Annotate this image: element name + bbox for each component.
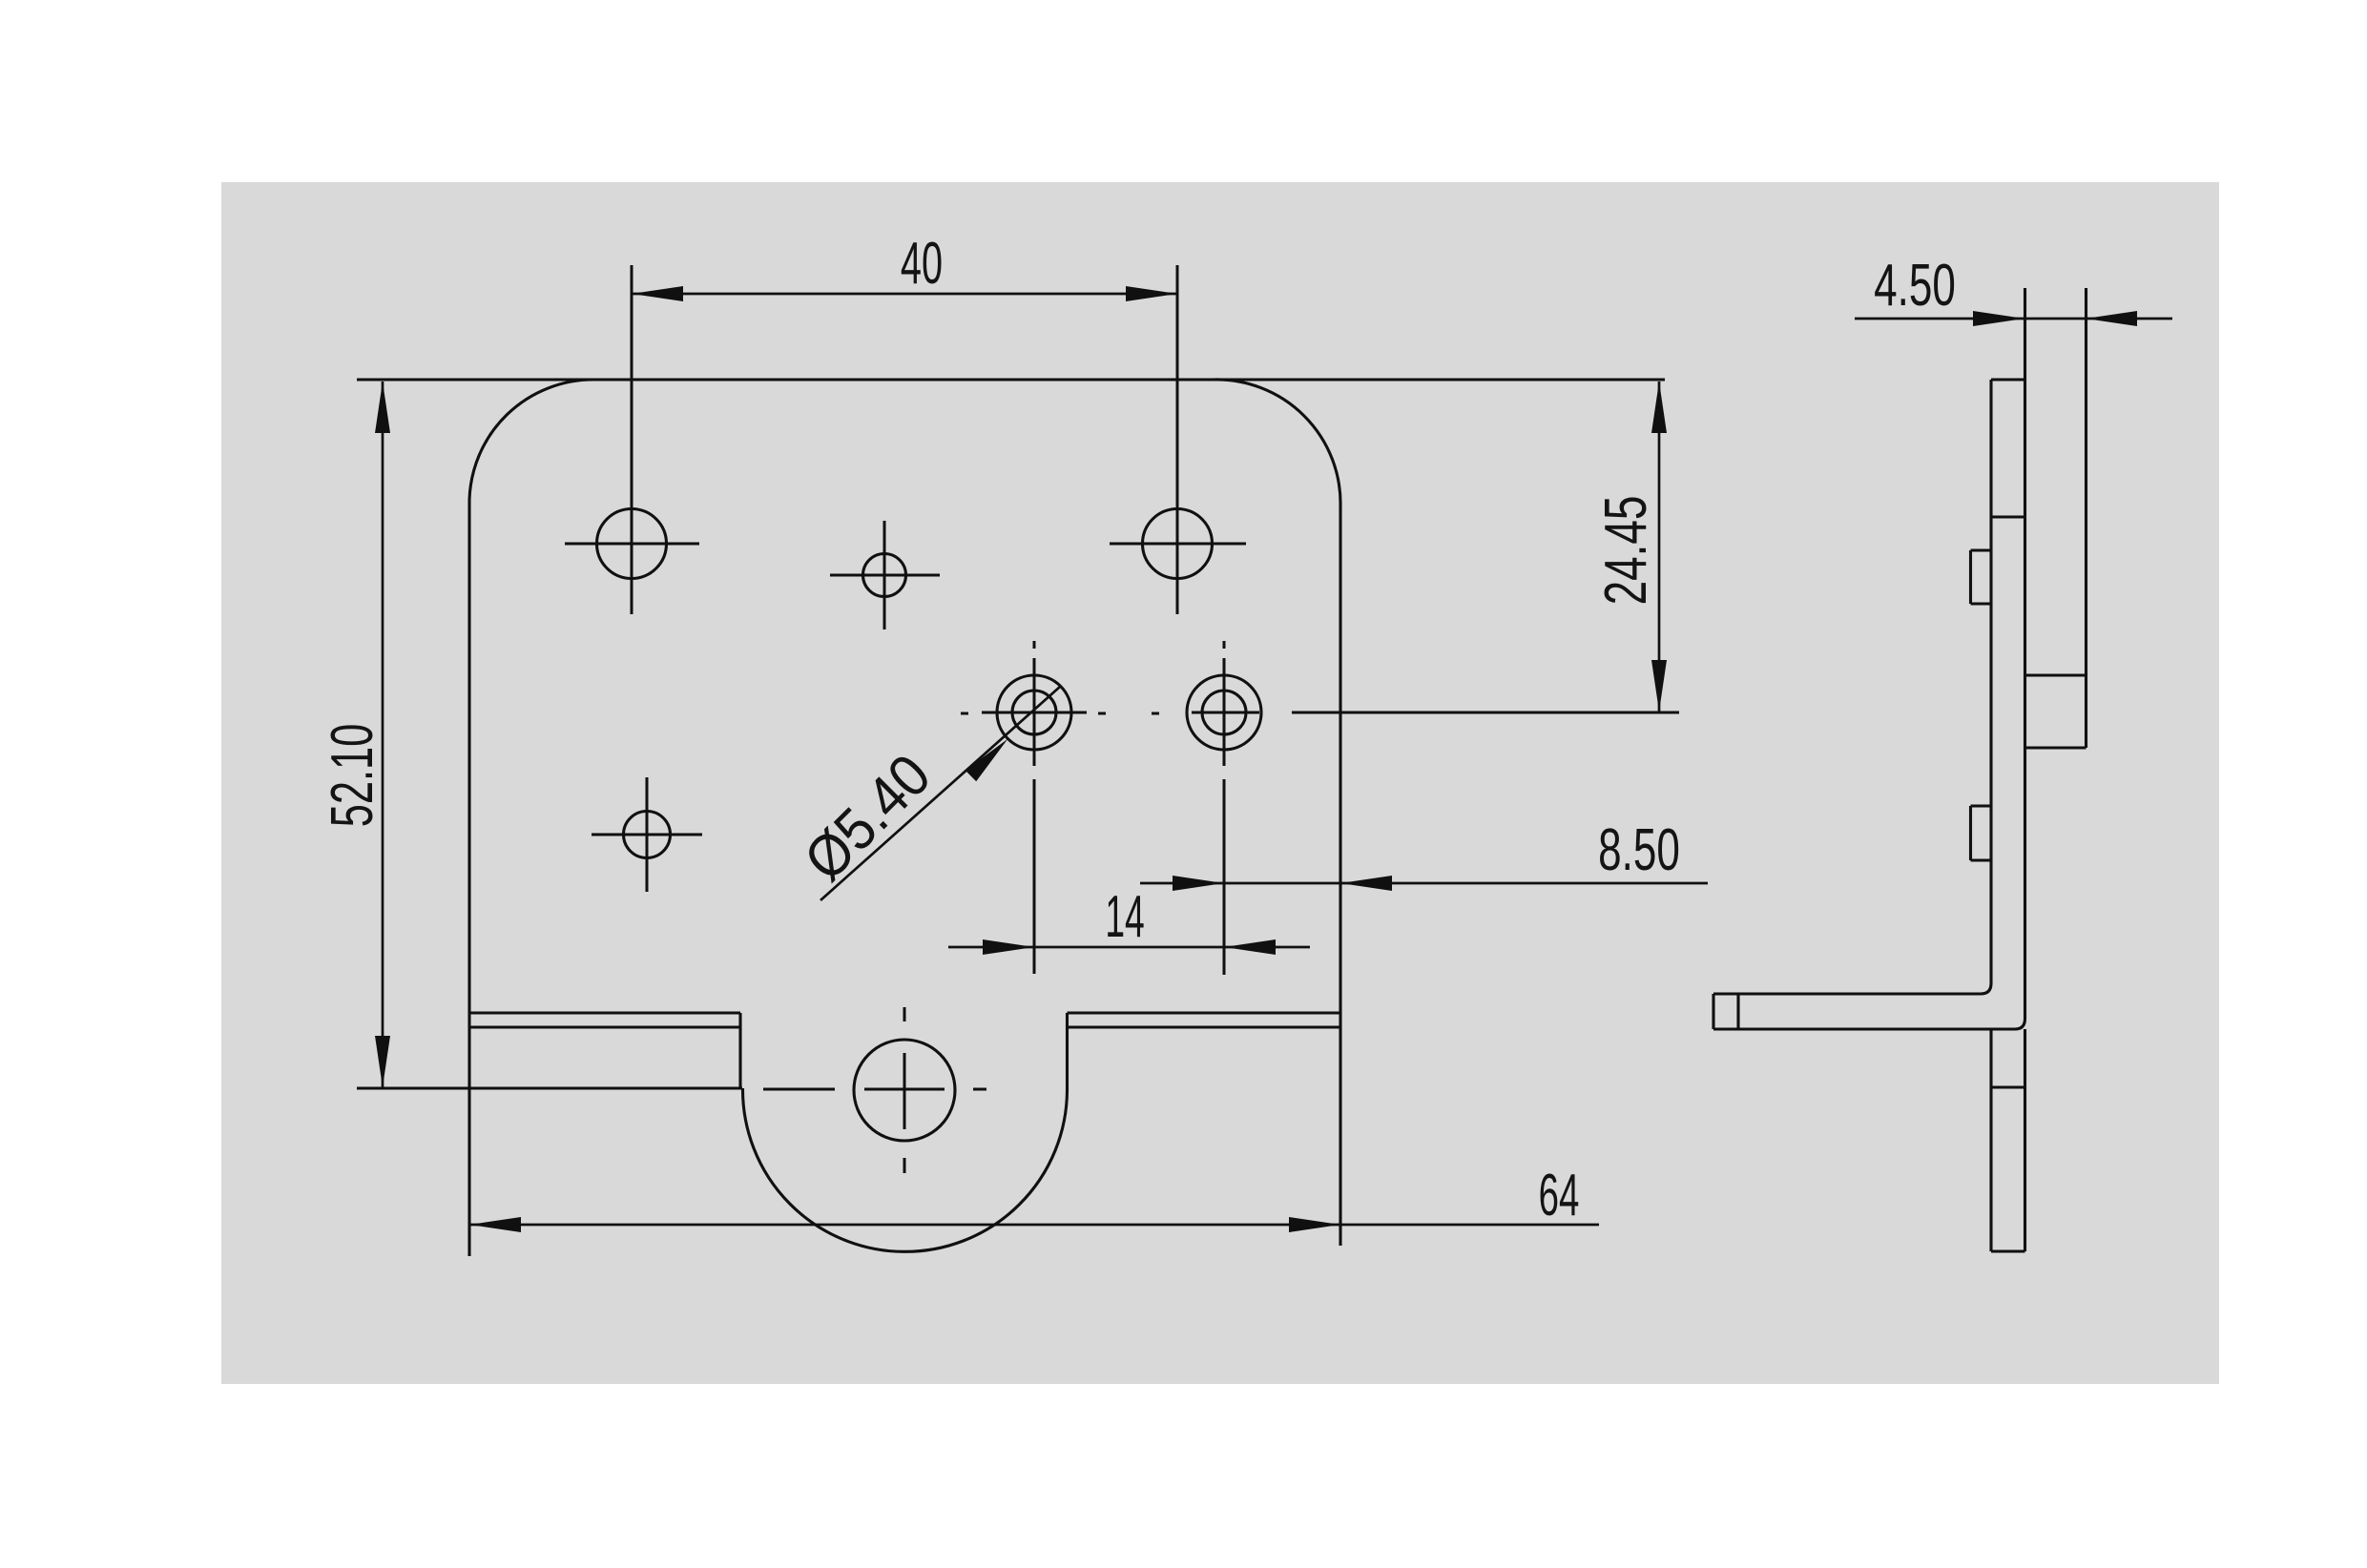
arrow 8.50 pointing right [1173, 876, 1224, 891]
extension ML hole to 14 dim [1033, 779, 1036, 974]
side foot lip divider [1736, 994, 1739, 1029]
big hole center line vertical dash bottom [903, 1158, 906, 1173]
arrow 4.50 pointing left [2086, 311, 2137, 326]
arrow 64 left [469, 1217, 521, 1232]
side foot top line [1713, 983, 1991, 994]
center line dot between holes 1 [1098, 712, 1106, 715]
side small tab 1 top [1971, 548, 1992, 551]
arrow 52.10 down [375, 1036, 390, 1087]
side foot bottom line [1713, 1019, 2025, 1029]
center line ML hole horizontal [982, 712, 1087, 714]
side small tab 2 top [1971, 804, 1992, 807]
right tab bend line bottom [1068, 1025, 1341, 1028]
gray drawing sheet [221, 182, 2219, 1384]
plate top-right corner arc [1214, 380, 1340, 506]
side small tab 1 outer edge [1969, 550, 1972, 604]
side plate right face lower [2024, 1029, 2026, 1251]
side pocket right edge / 4.50 extension [2085, 288, 2087, 748]
hole top-left Ø5.40 [597, 509, 667, 579]
arrow 14 left pointing right [983, 939, 1034, 955]
arrowheads [375, 286, 2137, 1232]
side small tab 1 bottom [1971, 602, 1992, 605]
arrow 24.45 up [1651, 382, 1667, 433]
arrow 14 right pointing left [1224, 939, 1276, 955]
big hole center line vertical main [903, 1053, 906, 1129]
hole middle-right inner [1202, 691, 1246, 734]
arrow 64 right [1289, 1217, 1340, 1232]
side small tab 2 outer edge [1969, 806, 1972, 860]
plate top edge with extension lines [357, 378, 1665, 381]
dim 52.10 line [382, 382, 384, 1087]
big hole center line horizontal dash right [973, 1088, 986, 1091]
svg-text:14: 14 [1105, 883, 1144, 949]
center line TL hole vertical / 40 extension [631, 265, 633, 614]
side small tab 2 bottom [1971, 858, 1992, 861]
center line dot between holes 2 [1152, 712, 1159, 715]
svg-text:52.10: 52.10 [321, 724, 385, 828]
small hole left-middle [624, 812, 671, 858]
holes [597, 509, 1262, 1142]
center line TR hole vertical / 40 extension [1176, 265, 1179, 614]
side foot left cap [1712, 994, 1714, 1029]
center line TC small hole vertical [883, 521, 886, 629]
center line TL hole horizontal [565, 543, 699, 546]
dim 4.50 line [1855, 318, 2172, 320]
center lines [565, 265, 1679, 1173]
center line dot left of ML hole [961, 712, 968, 715]
svg-text:24.45: 24.45 [1592, 496, 1658, 606]
big hole center line horizontal main [864, 1088, 945, 1091]
arrow 8.50 pointing left [1340, 876, 1392, 891]
center line TR hole horizontal [1110, 543, 1246, 546]
side lower strip bottom cap [1991, 1249, 2025, 1252]
center line MR hole horizontal [1192, 712, 1259, 714]
plate right edge with 64 extension [1339, 506, 1341, 1246]
leader line dia 5.40 [820, 687, 1060, 900]
left tab bend line bottom [469, 1025, 740, 1028]
hole middle-left outer [997, 675, 1071, 750]
center line dot above ML hole [1033, 641, 1036, 649]
small hole top-center [863, 554, 906, 597]
extension MR hole to 24.45 dim [1292, 712, 1679, 714]
side plate left face upper [1989, 380, 1992, 983]
side pocket top [2025, 673, 2087, 676]
center line TC small hole horizontal [830, 574, 940, 577]
dim 8.50 line [1140, 882, 1708, 885]
arrow 40 right [1126, 286, 1177, 301]
side view [1713, 288, 2087, 1251]
big bottom hole [854, 1040, 955, 1141]
arrow 24.45 down [1651, 660, 1667, 712]
svg-text:8.50: 8.50 [1598, 817, 1680, 883]
plate top-left corner arc [469, 380, 593, 500]
center line LM small hole vertical [646, 777, 649, 892]
side plate top cap [1991, 378, 2025, 381]
side plate left face lower [1989, 1029, 1992, 1251]
center line MR hole vertical [1223, 658, 1226, 766]
svg-text:4.50: 4.50 [1874, 253, 1956, 319]
dimension texts [321, 231, 1956, 1228]
right tab bend line top [1068, 1011, 1341, 1014]
left tab bend line top [469, 1011, 740, 1014]
side plate right face / 4.50 extension [2024, 288, 2026, 1019]
right tab left vertical [1066, 1013, 1069, 1091]
extension MR hole to 14 and 8.50 dims [1223, 779, 1226, 975]
plate left edge with 64 extension [467, 500, 470, 1256]
left tab right vertical [738, 1013, 741, 1088]
center line LM small hole horizontal [592, 834, 702, 836]
arrow 40 left [632, 286, 683, 301]
U tongue arc [742, 1088, 1067, 1251]
dim 24.45 line [1658, 382, 1661, 712]
svg-text:64: 64 [1539, 1162, 1580, 1228]
arrow 52.10 up [375, 382, 390, 433]
arrow 4.50 pointing right [1973, 311, 2024, 326]
center line dot above MR hole [1223, 641, 1226, 649]
hole middle-left inner [1012, 691, 1056, 734]
big hole center line horizontal dash left [763, 1088, 835, 1091]
plate bottom edge with 52.10 extension [357, 1086, 742, 1089]
svg-text:40: 40 [901, 231, 943, 297]
dim 40 line [632, 293, 1177, 296]
side pocket bottom [2025, 746, 2087, 749]
side lower strip bend tick [1991, 1085, 2025, 1088]
hole middle-right outer [1187, 675, 1261, 750]
dim 14 line [948, 946, 1310, 949]
dimension lines [383, 294, 2172, 1225]
side top tab bottom tick [1991, 515, 2025, 518]
dim 64 line [469, 1224, 1599, 1227]
arrow leader 45deg [965, 739, 1008, 782]
big hole center line vertical dash top [903, 1007, 906, 1021]
center line ML hole vertical [1033, 658, 1036, 766]
hole top-right Ø5.40 [1143, 509, 1213, 579]
